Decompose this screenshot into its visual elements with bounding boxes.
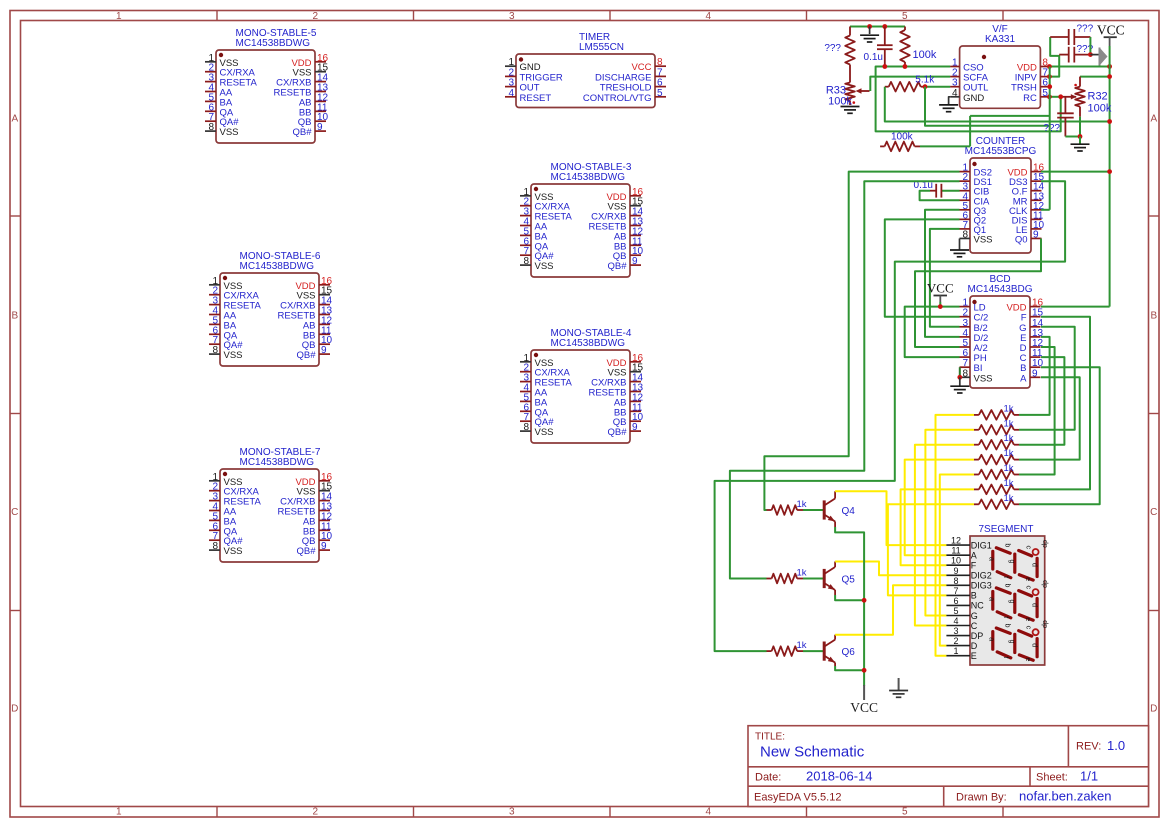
svg-text:GND: GND <box>963 93 984 104</box>
svg-text:1: 1 <box>116 807 122 818</box>
wire TRSH branch <box>970 115 1050 117</box>
svg-text:A: A <box>11 114 18 125</box>
resistor 1k (Q4 base) <box>772 505 798 515</box>
resistor 100k (vertical) <box>904 27 906 31</box>
resistor 1k (bank 1) <box>974 414 979 416</box>
svg-text:C: C <box>971 621 978 631</box>
IC U3 MONO-STABLE-3 <box>531 184 630 277</box>
svg-text:EasyEDA V5.5.12: EasyEDA V5.5.12 <box>754 792 841 804</box>
svg-text:9: 9 <box>1032 368 1038 379</box>
svg-text:NC: NC <box>971 601 984 611</box>
svg-text:D: D <box>971 641 978 651</box>
svg-text:e: e <box>1024 617 1031 621</box>
svg-text:TITLE:: TITLE: <box>755 732 785 743</box>
wire base lead <box>803 509 823 511</box>
junction <box>867 24 872 29</box>
IC U1 TIMER LM555CN <box>516 54 655 108</box>
svg-text:9: 9 <box>321 345 327 356</box>
ground (R32 node) <box>1079 137 1081 144</box>
svg-text:C: C <box>11 507 18 518</box>
svg-text:QB#: QB# <box>296 350 316 361</box>
svg-text:Date:: Date: <box>755 772 781 784</box>
svg-text:2: 2 <box>953 636 958 646</box>
wire (green to BCD) <box>1019 347 1055 475</box>
svg-text:VSS: VSS <box>974 373 993 384</box>
svg-text:a: a <box>987 597 994 601</box>
wire DS3 to Q6 base <box>715 181 1066 651</box>
IC U4 MONO-STABLE-4 <box>531 350 630 443</box>
svg-text:D: D <box>11 704 18 715</box>
svg-text:8: 8 <box>953 576 958 586</box>
svg-text:VSS: VSS <box>535 427 554 438</box>
wire COUNTER VDD to VCC rail <box>1041 171 1110 173</box>
svg-text:VSS: VSS <box>224 350 243 361</box>
svg-text:VSS: VSS <box>974 234 993 245</box>
svg-text:Sheet:: Sheet: <box>1036 772 1068 784</box>
junction <box>1107 64 1112 69</box>
junction <box>862 598 867 603</box>
svg-text:8: 8 <box>962 229 968 240</box>
svg-text:1k: 1k <box>1004 478 1014 489</box>
svg-text:MC14538BDWG: MC14538BDWG <box>240 261 315 272</box>
svg-text:9: 9 <box>632 256 638 267</box>
junction <box>862 668 867 673</box>
svg-text:DIG3: DIG3 <box>971 581 992 591</box>
svg-text:MC14538BDWG: MC14538BDWG <box>240 457 315 468</box>
ground (top bus) <box>869 27 871 35</box>
svg-text:MC14553BCPG: MC14553BCPG <box>965 146 1037 157</box>
wire 5.1k left to VCC rail lower <box>885 87 1110 122</box>
svg-text:5.1k: 5.1k <box>915 75 935 86</box>
svg-text:5: 5 <box>953 606 958 616</box>
junction <box>1088 52 1093 57</box>
svg-text:1k: 1k <box>1004 463 1014 474</box>
svg-text:7SEGMENT: 7SEGMENT <box>978 524 1033 535</box>
svg-text:8: 8 <box>523 422 529 433</box>
ground (COUNTER VSS pin8) <box>959 239 961 250</box>
svg-text:1k: 1k <box>1004 493 1014 504</box>
capacitor 0.1u (COUNTER, horizontal) <box>941 190 959 192</box>
svg-text:Drawn By:: Drawn By: <box>956 792 1007 804</box>
svg-text:8: 8 <box>212 541 218 552</box>
svg-text:B: B <box>971 591 977 601</box>
resistor 1k (Q5 base) <box>772 574 798 584</box>
wire Q6 collector to DIG3 <box>835 585 946 634</box>
svg-text:Q4: Q4 <box>842 506 856 517</box>
wire Q2 to C/2 <box>885 219 960 316</box>
svg-text:CONTROL/VTG: CONTROL/VTG <box>583 93 652 104</box>
svg-text:d: d <box>1031 603 1038 607</box>
wire caps join <box>1089 37 1091 55</box>
wire DS1 to Q5 base <box>730 181 960 578</box>
wire (yellow to 7seg) <box>936 415 975 656</box>
svg-text:5: 5 <box>902 807 908 818</box>
svg-text:1/1: 1/1 <box>1080 769 1098 784</box>
junction <box>882 64 887 69</box>
svg-text:2: 2 <box>312 807 318 818</box>
IC U7 MONO-STABLE-7 <box>220 469 319 562</box>
svg-text:1k: 1k <box>1004 433 1014 444</box>
wire (yellow to 7seg) <box>915 445 974 626</box>
svg-text:VSS: VSS <box>220 127 239 138</box>
svg-text:1: 1 <box>953 646 958 656</box>
wire R32 bottom node <box>1079 117 1081 137</box>
svg-text:LM555CN: LM555CN <box>579 42 624 53</box>
junction <box>882 24 887 29</box>
svg-text:1k: 1k <box>1004 403 1014 414</box>
svg-text:4: 4 <box>953 616 958 626</box>
svg-text:9: 9 <box>1033 229 1039 240</box>
svg-text:4: 4 <box>952 88 958 99</box>
svg-text:9: 9 <box>321 541 327 552</box>
svg-text:c: c <box>1024 626 1031 630</box>
svg-text:4: 4 <box>705 11 711 22</box>
svg-text:VCC: VCC <box>927 281 954 296</box>
wire BCD VDD to VCC rail <box>1041 306 1110 308</box>
wire Q1 to B/2 <box>930 229 960 327</box>
capacitor 0.1u (vertical) <box>884 27 886 46</box>
svg-text:4: 4 <box>705 807 711 818</box>
svg-text:dp: dp <box>1041 620 1048 628</box>
resistor 1k (bank 2) <box>974 429 979 431</box>
ground (under R33) <box>841 106 860 108</box>
svg-text:A: A <box>971 551 977 561</box>
svg-text:4: 4 <box>508 88 514 99</box>
svg-text:???: ??? <box>824 43 841 54</box>
junction <box>1047 74 1052 79</box>
svg-text:B: B <box>1150 310 1157 321</box>
svg-text:dp: dp <box>1041 540 1048 548</box>
wire RC net <box>1049 96 1062 98</box>
resistor 1k (bank 3) <box>974 444 979 446</box>
svg-text:8: 8 <box>208 122 214 133</box>
wire (yellow to 7seg) <box>925 430 974 616</box>
IC U8 COUNTER MC14553BCPG <box>970 158 1031 253</box>
svg-text:Q0: Q0 <box>1015 234 1028 245</box>
svg-text:1k: 1k <box>1004 448 1014 459</box>
svg-text:RC: RC <box>1023 93 1037 104</box>
svg-text:100k: 100k <box>891 132 914 143</box>
wire BI to VSS <box>959 367 961 377</box>
svg-text:d: d <box>1031 563 1038 567</box>
svg-text:12: 12 <box>951 536 961 546</box>
svg-text:3: 3 <box>509 807 515 818</box>
svg-text:nofar.ben.zaken: nofar.ben.zaken <box>1019 789 1112 804</box>
svg-text:a: a <box>987 557 994 561</box>
net port arrow (gray) <box>1090 54 1099 56</box>
wire base lead <box>803 578 823 580</box>
wire Q4 emitter rail <box>835 527 864 686</box>
svg-text:1.0: 1.0 <box>1107 738 1125 753</box>
wire Q5 emitter <box>835 595 864 600</box>
wire VCC rail (vertical) <box>1109 46 1111 307</box>
svg-text:0.1u: 0.1u <box>864 52 883 63</box>
transistor Q4 <box>823 500 826 519</box>
wire Q0 to A/2 <box>915 239 1041 348</box>
svg-text:d: d <box>1031 643 1038 647</box>
svg-text:VCC: VCC <box>1097 23 1125 38</box>
wire 5.1k right down <box>925 87 1050 126</box>
svg-text:MC14538BDWG: MC14538BDWG <box>551 172 626 183</box>
svg-text:5: 5 <box>657 88 663 99</box>
svg-text:6: 6 <box>953 596 958 606</box>
svg-text:f: f <box>1002 616 1009 618</box>
svg-text:DIG1: DIG1 <box>971 540 992 550</box>
ground (KA331 GND pin4) <box>949 97 950 105</box>
svg-text:New Schematic: New Schematic <box>760 744 865 761</box>
junction <box>1107 119 1112 124</box>
svg-text:9: 9 <box>632 422 638 433</box>
wire LD-PH tie <box>905 307 960 358</box>
wire (green to BCD) <box>1019 377 1080 459</box>
svg-text:3: 3 <box>509 11 515 22</box>
capacitor ??? (top right upper) <box>1050 36 1069 38</box>
7seg digit 1 <box>996 548 1010 553</box>
resistor 1k (bank 7) <box>974 503 979 505</box>
wire (yellow to 7seg) <box>940 475 974 646</box>
wire SCFA to R33 wiper <box>870 77 950 91</box>
svg-text:7: 7 <box>953 586 958 596</box>
wire Q4 collector to DIG1 <box>835 491 946 545</box>
wire (yellow to 7seg) <box>901 489 974 565</box>
wire (yellow to 7seg) <box>888 504 974 595</box>
svg-text:1: 1 <box>116 11 122 22</box>
svg-text:f: f <box>1002 576 1009 578</box>
svg-text:MC14538BDWG: MC14538BDWG <box>551 338 626 349</box>
ground (BCD VSS pin8) <box>959 377 961 385</box>
junction <box>957 375 962 380</box>
wire CSO net <box>876 67 1061 132</box>
svg-text:100k: 100k <box>1088 103 1112 115</box>
svg-text:VSS: VSS <box>535 261 554 272</box>
wire TRSH-CLK vertical <box>1049 67 1051 210</box>
svg-text:QB#: QB# <box>607 261 627 272</box>
svg-text:A: A <box>1020 373 1027 384</box>
wire INPV riser <box>1049 37 1059 77</box>
capacitor ??? (top right lower) <box>1059 54 1069 56</box>
svg-text:VSS: VSS <box>224 546 243 557</box>
svg-text:5: 5 <box>902 11 908 22</box>
svg-text:2018-06-14: 2018-06-14 <box>806 769 873 784</box>
wire (green to BCD) <box>1019 367 1100 504</box>
svg-text:B: B <box>11 310 18 321</box>
svg-text:???: ??? <box>1077 24 1094 35</box>
resistor 1k (Q6 base) <box>772 646 798 656</box>
resistor ??? (R top-left) <box>849 27 851 36</box>
svg-text:VCC: VCC <box>850 700 878 715</box>
svg-text:D: D <box>1150 704 1157 715</box>
junction <box>1047 84 1052 89</box>
wire (green to BCD) <box>1019 317 1090 490</box>
junction <box>1047 64 1052 69</box>
wire (yellow to 7seg) <box>905 460 974 556</box>
svg-text:3: 3 <box>953 626 958 636</box>
svg-text:A: A <box>1150 114 1157 125</box>
svg-text:G: G <box>971 611 978 621</box>
7seg digit 2 <box>996 588 1010 593</box>
transistor Q6 <box>823 642 826 661</box>
ground (bottom floating) <box>898 678 900 690</box>
IC U5 MONO-STABLE-5 <box>216 50 315 143</box>
svg-text:c: c <box>1024 586 1031 590</box>
junction <box>1058 94 1063 99</box>
svg-text:9: 9 <box>953 566 958 576</box>
svg-text:REV:: REV: <box>1076 741 1101 753</box>
svg-text:DP: DP <box>971 631 984 641</box>
svg-text:8: 8 <box>212 345 218 356</box>
svg-text:MC14538BDWG: MC14538BDWG <box>236 38 311 49</box>
svg-text:C: C <box>1150 507 1157 518</box>
junction <box>903 64 908 69</box>
svg-text:QB#: QB# <box>296 546 316 557</box>
svg-text:DIG2: DIG2 <box>971 571 992 581</box>
wire (green to BCD) <box>1019 337 1050 415</box>
svg-text:QB#: QB# <box>292 127 312 138</box>
svg-text:g: g <box>1008 640 1015 644</box>
resistor 1k (bank 5) <box>974 474 979 476</box>
svg-text:1k: 1k <box>797 499 807 510</box>
svg-text:E: E <box>971 651 977 661</box>
svg-text:g: g <box>1008 559 1015 563</box>
wire OUTL net <box>925 86 950 88</box>
svg-text:Q5: Q5 <box>842 575 856 586</box>
svg-text:e: e <box>1024 577 1031 581</box>
wire Q3 to D/2 <box>925 210 960 337</box>
junction <box>1107 74 1112 79</box>
7seg digit 3 <box>996 628 1010 633</box>
wire DS2 to Q4 base <box>764 172 959 510</box>
svg-text:RESET: RESET <box>520 93 552 104</box>
junction <box>1107 169 1112 174</box>
wire Q6 emitter <box>835 666 864 670</box>
resistor 1k (bank 6) <box>974 488 979 490</box>
svg-text:8: 8 <box>523 256 529 267</box>
wire (green to BCD) <box>1019 357 1064 445</box>
junction <box>923 84 928 89</box>
svg-text:10: 10 <box>951 556 961 566</box>
IC U6 MONO-STABLE-6 <box>220 273 319 366</box>
svg-text:1k: 1k <box>797 640 807 651</box>
svg-text:F: F <box>971 561 977 571</box>
svg-text:QB#: QB# <box>607 427 627 438</box>
capacitor ??? (right, vertical) <box>1064 97 1066 114</box>
junction <box>1078 134 1083 139</box>
svg-text:2: 2 <box>312 11 318 22</box>
svg-text:8: 8 <box>962 368 968 379</box>
wire KA331 VDD to VCC rail <box>1049 66 1109 68</box>
svg-text:c: c <box>1024 545 1031 549</box>
svg-text:11: 11 <box>951 546 960 556</box>
wire Q5 collector to DIG2 <box>835 562 946 576</box>
resistor 1k (bank 4) <box>974 459 979 461</box>
wire INPV/R32-top run <box>1080 76 1110 78</box>
wire top bus <box>850 26 905 28</box>
svg-text:f: f <box>1002 656 1009 658</box>
transistor Q5 <box>823 569 826 588</box>
svg-text:100k: 100k <box>913 49 937 61</box>
svg-text:9: 9 <box>317 122 323 133</box>
svg-text:Q6: Q6 <box>842 647 856 658</box>
svg-text:b: b <box>1004 624 1011 628</box>
IC DS1 7SEGMENT <box>970 536 1045 665</box>
VCC flag (bottom) <box>863 685 865 700</box>
wire base lead <box>803 650 823 652</box>
junction <box>938 304 943 309</box>
potentiometer R32 100k <box>1079 77 1081 87</box>
title block <box>748 726 1149 807</box>
svg-text:b: b <box>1004 584 1011 588</box>
resistor 100k (horizontal) <box>880 145 885 147</box>
IC U9 BCD MC14543BDG <box>970 296 1030 388</box>
svg-text:b: b <box>1004 543 1011 547</box>
svg-text:e: e <box>1024 657 1031 661</box>
svg-text:1k: 1k <box>1004 418 1014 429</box>
junction <box>1047 94 1052 99</box>
svg-text:dp: dp <box>1041 580 1048 588</box>
wire (green to BCD) <box>1019 327 1075 430</box>
svg-text:a: a <box>987 637 994 641</box>
svg-text:MC14543BDG: MC14543BDG <box>967 284 1032 295</box>
svg-text:R32: R32 <box>1088 91 1108 103</box>
resistor 5.1k <box>885 86 889 88</box>
svg-text:???: ??? <box>1043 123 1060 134</box>
IC U2 V/F KA331 <box>960 46 1041 108</box>
svg-text:KA331: KA331 <box>985 34 1015 45</box>
svg-text:g: g <box>1008 600 1015 604</box>
svg-text:1k: 1k <box>797 567 807 578</box>
wire CLK <box>1041 209 1050 211</box>
potentiometer R33 100k <box>845 83 855 101</box>
